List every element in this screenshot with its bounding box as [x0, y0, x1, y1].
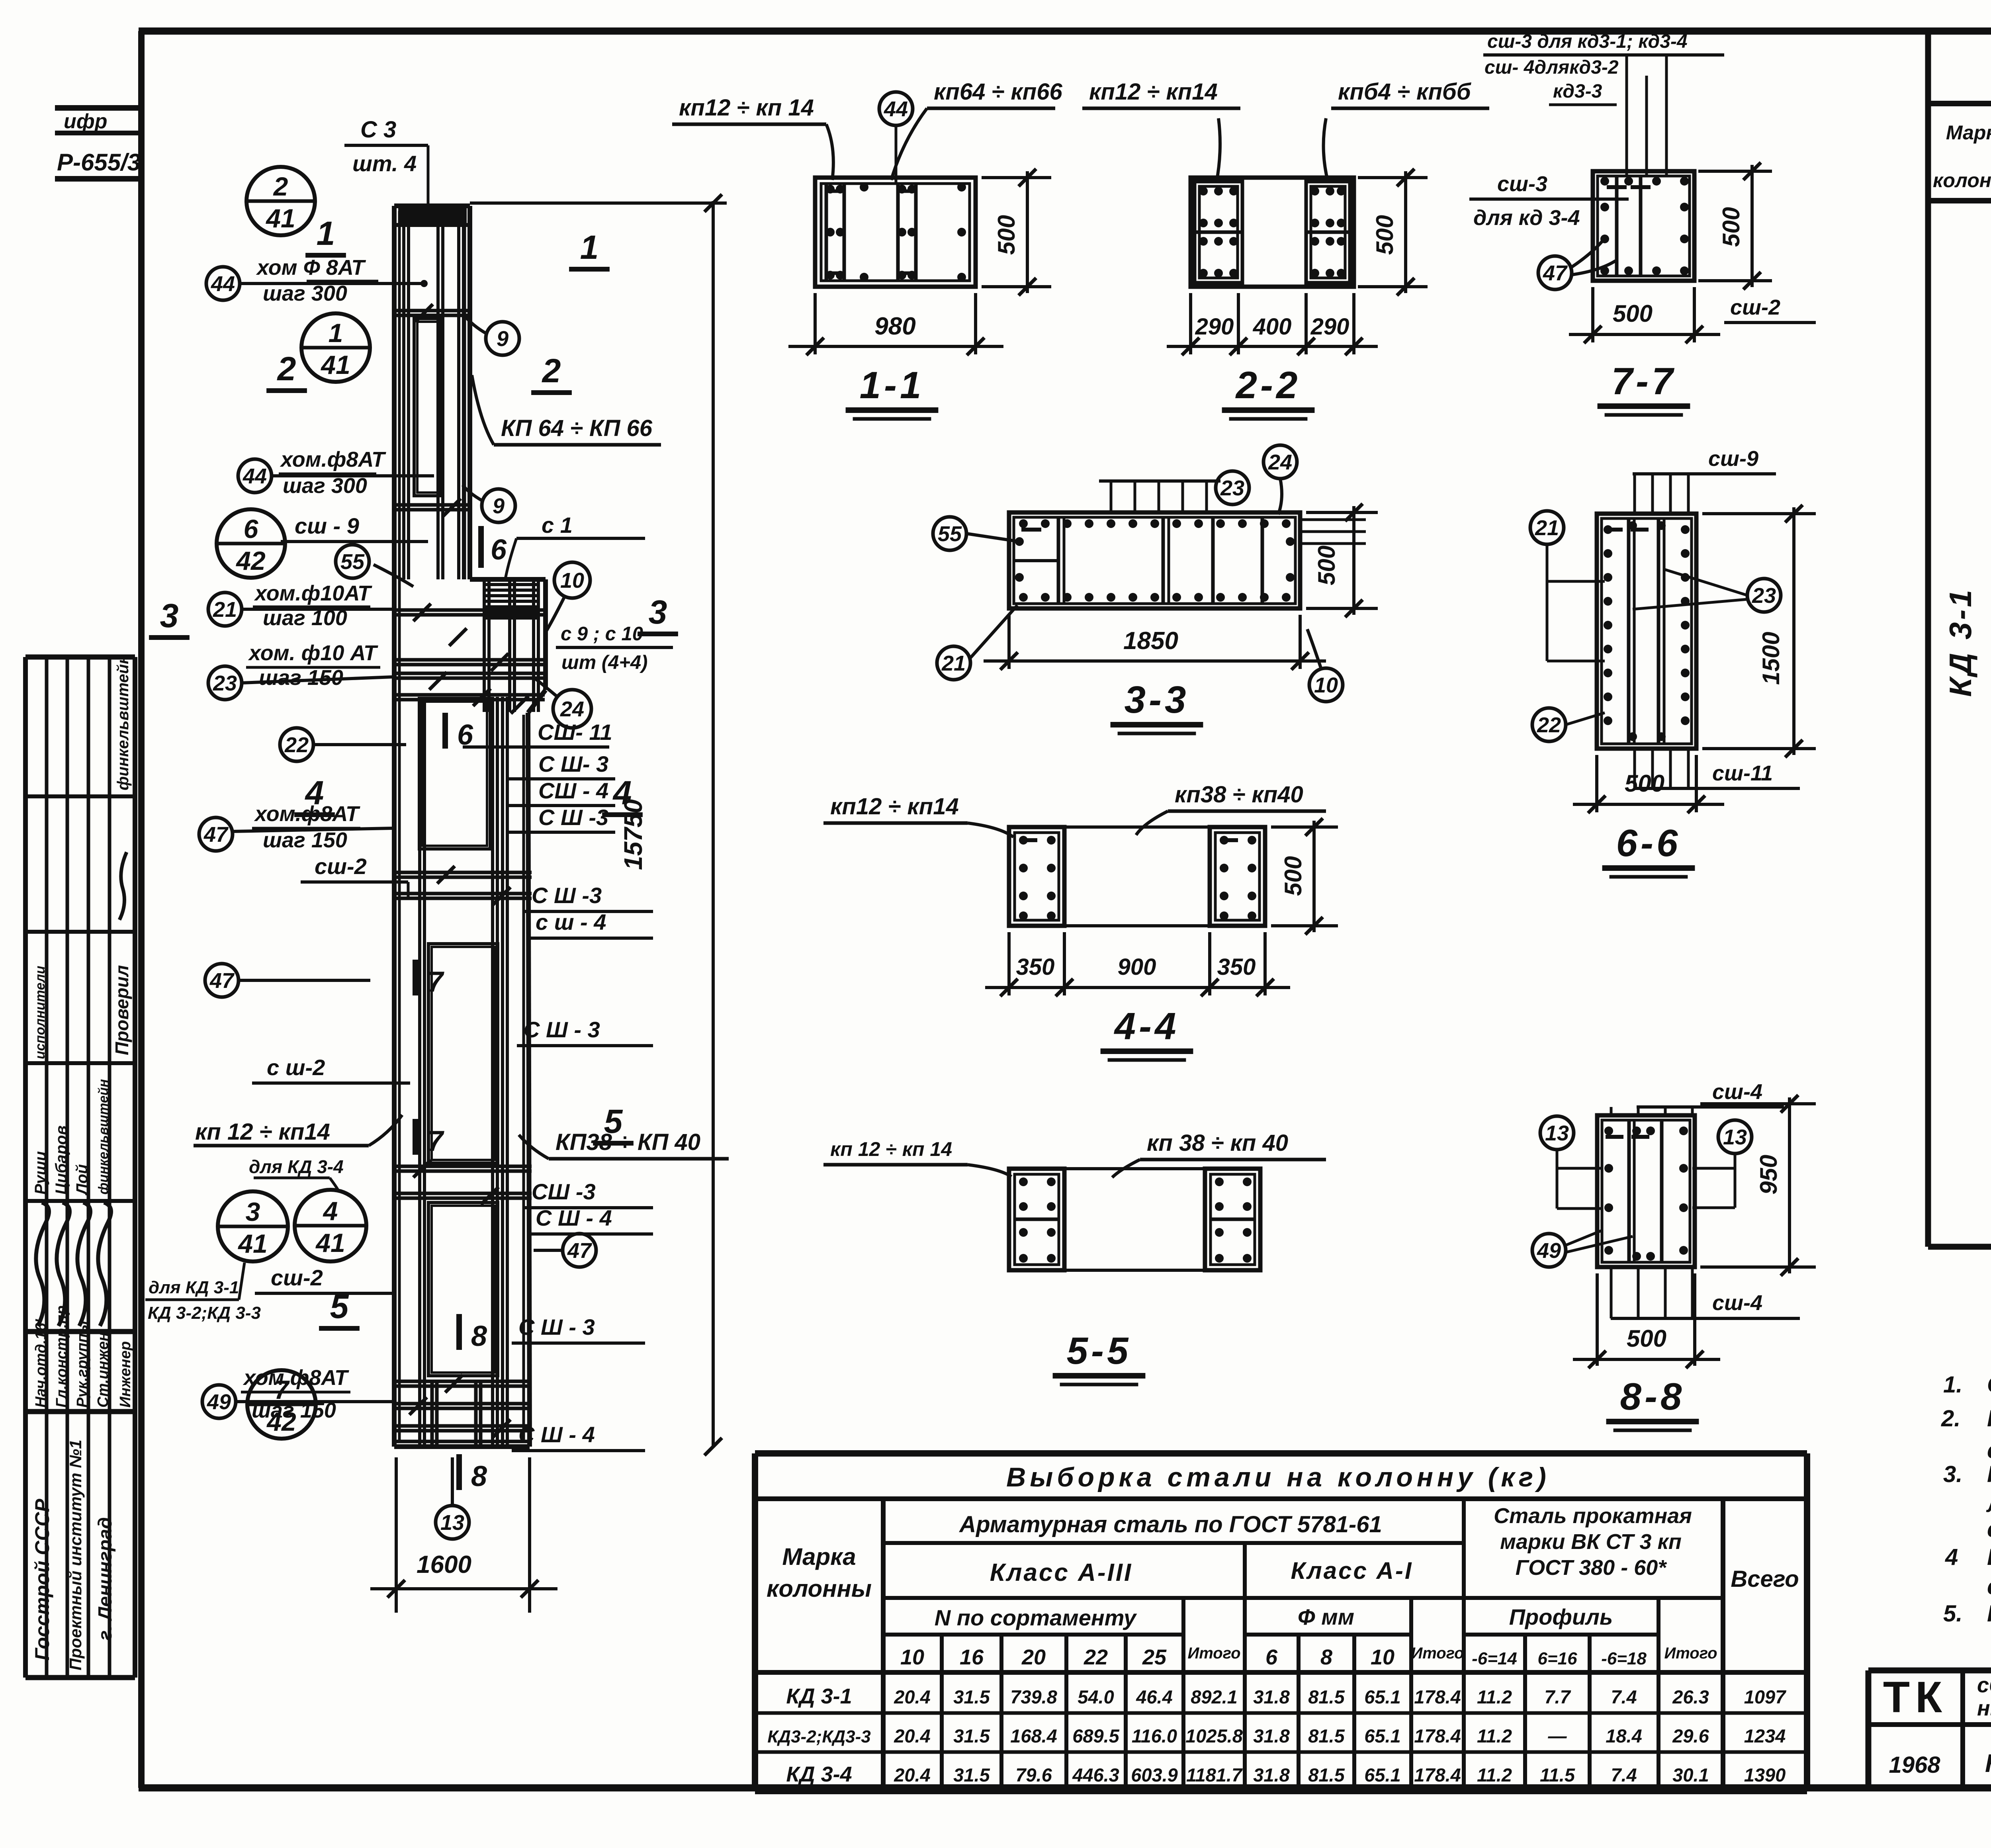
svg-text:шаг 150: шаг 150 — [263, 828, 347, 852]
svg-text:исполнители: исполнители — [33, 966, 48, 1059]
svg-text:сш-11: сш-11 — [1712, 761, 1773, 785]
svg-text:Итого: Итого — [1187, 1645, 1240, 1662]
svg-text:СШ - 4: СШ - 4 — [538, 778, 608, 803]
svg-text:65.1: 65.1 — [1364, 1686, 1400, 1707]
svg-text:7-7: 7-7 — [1612, 360, 1676, 403]
svg-text:13: 13 — [1545, 1121, 1569, 1145]
svg-text:С Ш- 3: С Ш- 3 — [538, 751, 608, 776]
svg-text:с ш - 4: с ш - 4 — [536, 909, 606, 935]
svg-text:79.6: 79.6 — [1015, 1764, 1052, 1785]
svg-text:г. Ленинград: г. Ленинград — [95, 1517, 116, 1641]
svg-text:13: 13 — [440, 1511, 464, 1535]
svg-text:31.5: 31.5 — [953, 1764, 990, 1785]
svg-text:Гл.констр.пр.: Гл.констр.пр. — [53, 1301, 70, 1408]
svg-text:3: 3 — [160, 597, 179, 634]
svg-text:-6=18: -6=18 — [1601, 1649, 1647, 1668]
svg-text:65.1: 65.1 — [1364, 1764, 1400, 1785]
svg-text:178.4: 178.4 — [1414, 1725, 1461, 1746]
svg-text:1850: 1850 — [1123, 627, 1178, 655]
svg-text:44: 44 — [211, 272, 235, 296]
svg-text:Профиль: Профиль — [1509, 1604, 1613, 1629]
svg-text:ТК: ТК — [1883, 1673, 1948, 1722]
svg-text:6: 6 — [244, 514, 259, 544]
svg-text:с 1: с 1 — [542, 512, 573, 538]
svg-text:1600: 1600 — [417, 1551, 471, 1578]
svg-text:8: 8 — [471, 1461, 487, 1492]
svg-text:21: 21 — [941, 651, 966, 675]
svg-text:400: 400 — [1253, 314, 1292, 340]
svg-text:кп12 ÷ кп 14: кп12 ÷ кп 14 — [679, 95, 814, 121]
corbel hatch and bands — [393, 579, 545, 714]
svg-text:КП38 ÷ КП 40: КП38 ÷ КП 40 — [555, 1129, 700, 1155]
svg-text:49: 49 — [1537, 1239, 1561, 1263]
svg-text:3-3: 3-3 — [1125, 679, 1189, 721]
specification table — [1928, 32, 1991, 1247]
svg-text:Выборка стали на колонну: Выборка стали на колонну (кг) — [1006, 1462, 1550, 1492]
svg-text:20.4: 20.4 — [894, 1764, 930, 1785]
svg-text:603.9: 603.9 — [1131, 1764, 1178, 1785]
svg-text:хом.ф8АТ: хом.ф8АТ — [280, 448, 386, 471]
svg-text:44: 44 — [884, 97, 908, 121]
svg-text:290: 290 — [1310, 314, 1349, 340]
svg-text:116.0: 116.0 — [1132, 1725, 1177, 1746]
svg-text:сш-4: сш-4 — [1712, 1080, 1762, 1104]
svg-text:сш-3: сш-3 — [1497, 172, 1547, 196]
svg-text:кпб4 ÷ кпбб: кпб4 ÷ кпбб — [1338, 79, 1472, 105]
labels right of column — [463, 316, 729, 1451]
svg-text:10: 10 — [560, 569, 584, 593]
svg-text:178.4: 178.4 — [1414, 1686, 1461, 1707]
svg-text:47: 47 — [567, 1239, 593, 1263]
svg-text:хом Ф 8АТ: хом Ф 8АТ — [256, 256, 366, 280]
svg-text:кп12 ÷ кп14: кп12 ÷ кп14 — [1089, 79, 1218, 105]
svg-text:31.8: 31.8 — [1253, 1764, 1290, 1785]
svg-text:500: 500 — [1280, 856, 1306, 896]
svg-text:3: 3 — [246, 1197, 260, 1226]
svg-text:сш-9: сш-9 — [1708, 447, 1758, 471]
svg-text:6: 6 — [1265, 1645, 1278, 1669]
svg-text:23: 23 — [213, 671, 237, 695]
svg-text:Цибаров: Цибаров — [53, 1125, 70, 1195]
svg-text:980: 980 — [874, 313, 915, 340]
svg-text:500: 500 — [993, 215, 1020, 255]
svg-text:Руши: Руши — [32, 1151, 49, 1195]
stirrup bands lower column — [392, 866, 532, 1205]
svg-text:Класс А-III: Класс А-III — [990, 1559, 1132, 1586]
svg-text:1: 1 — [317, 215, 335, 252]
svg-text:1025.8: 1025.8 — [1185, 1725, 1243, 1746]
svg-text:65.1: 65.1 — [1364, 1725, 1400, 1746]
svg-text:689.5: 689.5 — [1072, 1725, 1119, 1746]
svg-text:для КД 3-1: для КД 3-1 — [149, 1278, 239, 1297]
svg-text:31.5: 31.5 — [953, 1725, 990, 1746]
longitudinal bars upper shaft — [404, 225, 464, 579]
svg-text:81.5: 81.5 — [1308, 1686, 1345, 1707]
svg-text:81.5: 81.5 — [1308, 1725, 1345, 1746]
svg-text:Сталь прокатная: Сталь прокатная — [1494, 1504, 1692, 1528]
svg-text:13: 13 — [1723, 1125, 1747, 1149]
svg-text:500: 500 — [1718, 207, 1745, 247]
svg-text:4: 4 — [323, 1196, 338, 1226]
svg-text:сборные железобетонные двухв: сборные железобетонные двухветвевые коло… — [1977, 1673, 1991, 1697]
svg-text:Марка: Марка — [1946, 121, 1991, 144]
svg-text:22: 22 — [1537, 713, 1561, 737]
svg-text:2: 2 — [542, 352, 561, 389]
svg-text:41: 41 — [315, 1228, 345, 1257]
svg-text:6: 6 — [491, 534, 507, 566]
svg-text:6-6: 6-6 — [1616, 822, 1681, 864]
svg-text:КД 3-2;КД 3-3: КД 3-2;КД 3-3 — [148, 1303, 261, 1323]
svg-text:900: 900 — [1118, 954, 1156, 980]
longitudinal bars lower column — [420, 697, 507, 1447]
svg-text:колонны: колонны — [1933, 169, 1991, 192]
svg-text:21: 21 — [1535, 516, 1559, 540]
svg-text:31.5: 31.5 — [953, 1686, 990, 1707]
svg-text:1: 1 — [580, 229, 599, 266]
svg-text:18.4: 18.4 — [1606, 1725, 1642, 1746]
column bottom grid hatch — [396, 1375, 530, 1445]
svg-text:500: 500 — [1313, 546, 1340, 585]
cipher box (left margin) — [55, 108, 141, 179]
svg-text:шаг 300: шаг 300 — [283, 474, 367, 498]
svg-text:500: 500 — [1627, 1325, 1666, 1352]
svg-text:С Ш - 4: С Ш - 4 — [518, 1422, 595, 1447]
svg-text:2.: 2. — [1941, 1406, 1960, 1431]
svg-text:стали на закладные элементы: стали на закладные элементы. — [1987, 1574, 1991, 1600]
svg-text:хом.ф10АТ: хом.ф10АТ — [254, 581, 372, 605]
svg-text:сш-2: сш-2 — [315, 854, 367, 879]
svg-text:41: 41 — [320, 350, 350, 379]
svg-text:КП 64 ÷ КП 66: КП 64 ÷ КП 66 — [501, 415, 653, 441]
svg-text:20.4: 20.4 — [894, 1725, 930, 1746]
svg-text:6=16: 6=16 — [1537, 1649, 1577, 1668]
svg-text:кп 12 ÷ кп 14: кп 12 ÷ кп 14 — [830, 1138, 952, 1160]
svg-text:Класс А-I: Класс А-I — [1291, 1557, 1413, 1584]
dimension 15750 — [470, 194, 727, 1455]
column top hatched cap — [394, 208, 470, 225]
svg-text:Марка: Марка — [782, 1543, 856, 1570]
notes (Primechaniya) — [1941, 1315, 1991, 1659]
svg-text:20.4: 20.4 — [894, 1686, 930, 1707]
svg-text:16: 16 — [960, 1645, 984, 1669]
svg-text:Инженер: Инженер — [117, 1341, 134, 1408]
svg-text:С Ш -3: С Ш -3 — [538, 805, 608, 830]
svg-text:Проектный институт №1: Проектный институт №1 — [66, 1439, 85, 1670]
big reference circles — [217, 167, 370, 1439]
svg-text:кп38 ÷ кп40: кп38 ÷ кп40 — [1175, 782, 1303, 808]
svg-text:8: 8 — [1320, 1645, 1332, 1669]
svg-text:55: 55 — [938, 522, 962, 546]
svg-text:Колонны КД 3-1; КД 3-2;КД 3-: Колонны КД 3-1; КД 3-2;КД 3-3; КД 3- 4. — [1985, 1749, 1991, 1778]
svg-text:шаг 150: шаг 150 — [259, 666, 343, 690]
svg-text:892.1: 892.1 — [1191, 1686, 1238, 1707]
svg-text:350: 350 — [1217, 954, 1256, 980]
svg-text:290: 290 — [1195, 314, 1234, 340]
svg-text:финкельвштейн: финкельвштейн — [114, 655, 132, 790]
svg-text:шаг 150: шаг 150 — [252, 1398, 336, 1422]
svg-text:4: 4 — [1945, 1544, 1958, 1570]
svg-text:Итого: Итого — [1664, 1645, 1717, 1662]
svg-text:колонны: колонны — [767, 1575, 872, 1602]
svg-text:для кд 3-4: для кд 3-4 — [1473, 206, 1580, 230]
svg-text:Рук.группы: Рук.группы — [74, 1320, 91, 1408]
section 4-4 — [823, 782, 1338, 1060]
svg-text:29.6: 29.6 — [1672, 1725, 1709, 1746]
svg-text:950: 950 — [1755, 1155, 1782, 1195]
svg-text:Опалубку колонн см. в выпус: Опалубку колонн см. в выпуске I л.35 — [1987, 1372, 1991, 1398]
title block — [1868, 1670, 1991, 1788]
section 5-5 — [823, 1130, 1326, 1385]
svg-text:сш- 4длякд3-2: сш- 4длякд3-2 — [1484, 57, 1619, 78]
svg-text:хом.ф8АТ: хом.ф8АТ — [254, 802, 360, 826]
svg-text:31.8: 31.8 — [1253, 1725, 1290, 1746]
svg-text:2-2: 2-2 — [1235, 364, 1301, 407]
svg-text:7.4: 7.4 — [1611, 1764, 1637, 1785]
svg-text:5-5: 5-5 — [1067, 1330, 1132, 1372]
svg-text:41: 41 — [265, 203, 295, 233]
svg-text:сш - 9: сш - 9 — [295, 513, 359, 538]
svg-text:31.8: 31.8 — [1253, 1686, 1290, 1707]
svg-text:11.2: 11.2 — [1477, 1725, 1512, 1746]
svg-text:1-1: 1-1 — [860, 364, 925, 407]
svg-text:Р-655/3: Р-655/3 — [57, 149, 141, 176]
svg-text:11.5: 11.5 — [1540, 1764, 1575, 1785]
svg-text:С Ш - 3: С Ш - 3 — [518, 1314, 595, 1340]
svg-text:23: 23 — [1752, 584, 1776, 608]
svg-text:Каркасы и спецификации на от: Каркасы и спецификации на отдельные — [1987, 1406, 1991, 1431]
svg-text:20: 20 — [1021, 1645, 1046, 1669]
svg-text:25: 25 — [1142, 1645, 1167, 1669]
svg-text:ифр: ифр — [64, 110, 108, 133]
svg-text:С Ш - 3: С Ш - 3 — [524, 1017, 600, 1042]
svg-text:41: 41 — [237, 1229, 267, 1258]
svg-text:47: 47 — [209, 969, 235, 993]
svg-text:для КД 3-4: для КД 3-4 — [249, 1156, 344, 1177]
svg-text:сш-2: сш-2 — [271, 1265, 323, 1290]
spec table headers — [1933, 119, 1991, 194]
svg-text:Лой: Лой — [73, 1164, 91, 1196]
svg-text:8-8: 8-8 — [1620, 1375, 1685, 1418]
svg-text:сш-4: сш-4 — [1712, 1291, 1762, 1315]
svg-text:49: 49 — [207, 1390, 231, 1414]
svg-text:с 9 ; с 10: с 9 ; с 10 — [561, 623, 643, 645]
svg-text:11.2: 11.2 — [1477, 1764, 1512, 1785]
svg-text:N по сортаменту: N по сортаменту — [935, 1605, 1137, 1630]
svg-text:шаг 300: шаг 300 — [263, 282, 347, 305]
svg-text:8: 8 — [471, 1320, 487, 1352]
svg-text:сш-2: сш-2 — [1730, 295, 1780, 319]
svg-text:С Ш -3: С Ш -3 — [532, 883, 602, 908]
section 3-3 — [933, 445, 1378, 733]
svg-text:9: 9 — [497, 327, 509, 351]
spec table left half rows — [1943, 207, 1991, 1056]
svg-text:23: 23 — [1220, 476, 1244, 500]
svg-text:9: 9 — [493, 494, 505, 518]
svg-text:54.0: 54.0 — [1078, 1686, 1114, 1707]
svg-text:хом.ф8АТ: хом.ф8АТ — [243, 1366, 349, 1390]
svg-text:СШ- 11: СШ- 11 — [538, 720, 612, 745]
svg-text:1390: 1390 — [1744, 1764, 1786, 1785]
svg-text:1097: 1097 — [1744, 1686, 1786, 1707]
section 6-6 — [1530, 447, 1816, 877]
svg-text:шт (4+4): шт (4+4) — [561, 652, 648, 673]
svg-text:4-4: 4-4 — [1114, 1005, 1179, 1048]
svg-text:сш-3 для кд3-1; кд3-4: сш-3 для кд3-1; кд3-4 — [1487, 31, 1688, 52]
svg-text:10: 10 — [900, 1645, 924, 1669]
svg-text:21: 21 — [213, 598, 237, 622]
svg-text:24: 24 — [1268, 450, 1292, 474]
svg-text:26.3: 26.3 — [1672, 1686, 1709, 1707]
svg-text:1181.7: 1181.7 — [1186, 1764, 1243, 1785]
svg-text:1968: 1968 — [1889, 1752, 1940, 1778]
svg-text:Колонна КД 3-2 изготовляется: Колонна КД 3-2 изготовляется из бетона м… — [1987, 1601, 1991, 1627]
svg-text:КД 3-1: КД 3-1 — [786, 1684, 852, 1708]
svg-text:Нач.отд.16': Нач.отд.16' — [33, 1318, 49, 1408]
svg-text:КД 3-1: КД 3-1 — [1943, 587, 1978, 697]
svg-text:шаг 100: шаг 100 — [263, 606, 347, 630]
svg-text:Ф мм: Ф мм — [1298, 1604, 1354, 1629]
steel selection table — [755, 1453, 1807, 1791]
svg-text:3: 3 — [649, 593, 667, 631]
svg-text:1: 1 — [329, 318, 343, 348]
svg-text:11.2: 11.2 — [1477, 1686, 1512, 1707]
svg-text:КД3-2;КД3-3: КД3-2;КД3-3 — [767, 1727, 871, 1746]
callouts left of column — [145, 117, 469, 1539]
svg-text:46.4: 46.4 — [1136, 1686, 1172, 1707]
svg-text:кп 38 ÷ кп 40: кп 38 ÷ кп 40 — [1147, 1130, 1288, 1156]
svg-text:47: 47 — [1543, 261, 1568, 285]
dimension 1600 below column — [370, 1457, 557, 1613]
svg-text:При установке пространственн: При установке пространственных каркасов … — [1987, 1461, 1991, 1487]
svg-text:739.8: 739.8 — [1010, 1686, 1057, 1707]
left margin stamp table — [25, 655, 135, 1678]
svg-text:81.5: 81.5 — [1308, 1764, 1345, 1785]
stirrup bands upper shaft — [392, 304, 472, 516]
svg-text:СШ -3: СШ -3 — [532, 1179, 596, 1204]
svg-text:марки ВК СТ 3 кп: марки ВК СТ 3 кп — [1500, 1530, 1682, 1554]
svg-text:Итого: Итого — [1411, 1645, 1464, 1662]
lower column openings — [419, 698, 498, 1376]
svg-text:55: 55 — [340, 550, 365, 574]
svg-text:шт. 4: шт. 4 — [352, 151, 417, 176]
svg-text:10: 10 — [1371, 1645, 1394, 1669]
svg-text:В таблице расхода материалов: В таблице расхода материалов не учтен ра… — [1987, 1544, 1991, 1570]
svg-text:ГОСТ 380 - 60*: ГОСТ 380 - 60* — [1516, 1556, 1668, 1580]
mesh zone C3 upper shaft — [414, 319, 441, 496]
svg-text:7.7: 7.7 — [1544, 1686, 1571, 1707]
section 1-1 — [672, 79, 1062, 419]
column elevation outline — [394, 206, 546, 1447]
svg-text:ны с проходами в уровне под: ны с проходами в уровне подкрановых бало… — [1977, 1696, 1991, 1720]
svg-text:хом. ф10 АТ: хом. ф10 АТ — [248, 641, 378, 665]
svg-text:стержней должны быть обраще: стержней должны быть обращены к низу кол… — [1987, 1516, 1991, 1542]
svg-text:22: 22 — [284, 733, 309, 757]
svg-text:стержни см. в выпуске III.: стержни см. в выпуске III. — [1987, 1437, 1991, 1463]
section 2-2 — [1082, 79, 1489, 419]
svg-text:финкельвштейн: финкельвштейн — [96, 1079, 111, 1195]
svg-text:С 3: С 3 — [360, 117, 396, 143]
svg-text:Госстрой СССР: Госстрой СССР — [31, 1498, 53, 1660]
svg-text:47: 47 — [203, 823, 229, 847]
svg-text:178.4: 178.4 — [1414, 1764, 1461, 1785]
svg-text:-6=14: -6=14 — [1472, 1649, 1517, 1668]
svg-text:500: 500 — [1613, 300, 1653, 327]
svg-text:Всего: Всего — [1731, 1566, 1799, 1592]
svg-text:7: 7 — [427, 966, 444, 998]
svg-text:350: 350 — [1016, 954, 1055, 980]
section 7-7 — [1469, 31, 1816, 415]
svg-text:500: 500 — [1625, 770, 1664, 797]
svg-text:с ш-2: с ш-2 — [267, 1055, 325, 1080]
svg-text:24: 24 — [560, 697, 584, 721]
svg-text:1500: 1500 — [1758, 632, 1784, 685]
svg-text:2: 2 — [273, 172, 288, 201]
svg-text:кп64 ÷ кп66: кп64 ÷ кп66 — [934, 79, 1062, 105]
section marks around column — [149, 215, 678, 1492]
svg-text:1.: 1. — [1943, 1372, 1962, 1398]
svg-text:кп 12 ÷ кп14: кп 12 ÷ кп14 — [195, 1119, 330, 1145]
svg-text:кд3-3: кд3-3 — [1553, 81, 1602, 102]
svg-text:—: — — [1548, 1725, 1567, 1746]
svg-text:42: 42 — [235, 546, 266, 575]
svg-text:кп12 ÷ кп14: кп12 ÷ кп14 — [830, 794, 959, 819]
svg-text:446.3: 446.3 — [1072, 1764, 1119, 1785]
svg-text:Ст.инжен.: Ст.инжен. — [95, 1328, 111, 1408]
svg-text:10: 10 — [1314, 673, 1338, 697]
svg-text:2: 2 — [277, 350, 296, 387]
svg-text:КД 3-4: КД 3-4 — [786, 1762, 852, 1786]
svg-text:7: 7 — [427, 1125, 444, 1157]
svg-text:Проверил: Проверил — [111, 965, 132, 1055]
svg-text:С Ш - 4: С Ш - 4 — [536, 1205, 612, 1230]
svg-text:30.1: 30.1 — [1672, 1764, 1709, 1785]
svg-text:44: 44 — [243, 464, 267, 488]
svg-text:7.4: 7.4 — [1611, 1686, 1637, 1707]
svg-text:Арматурная сталь по ГОСТ 57: Арматурная сталь по ГОСТ 5781-61 — [958, 1512, 1382, 1537]
svg-text:500: 500 — [1371, 215, 1398, 255]
svg-text:5.: 5. — [1943, 1601, 1962, 1627]
svg-text:168.4: 168.4 — [1010, 1725, 1057, 1746]
svg-text:1234: 1234 — [1744, 1725, 1786, 1746]
svg-text:3.: 3. — [1943, 1461, 1962, 1487]
section 8-8 — [1532, 1080, 1816, 1430]
svg-text:22: 22 — [1084, 1645, 1108, 1669]
